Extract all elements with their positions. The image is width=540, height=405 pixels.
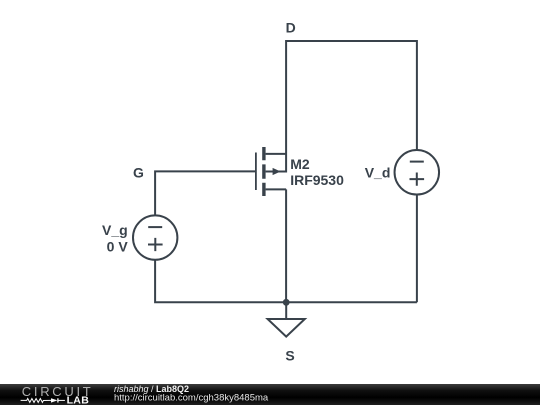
svg-text:M2: M2 xyxy=(290,156,310,172)
svg-text:V_g: V_g xyxy=(102,222,128,238)
svg-text:D: D xyxy=(286,19,296,35)
svg-text:S: S xyxy=(285,348,294,364)
svg-text:http://circuitlab.com/cgh38ky8: http://circuitlab.com/cgh38ky8485ma xyxy=(114,393,269,404)
svg-text:G: G xyxy=(133,164,144,180)
svg-text:0 V: 0 V xyxy=(107,238,129,254)
svg-text:LAB: LAB xyxy=(67,394,90,405)
svg-text:IRF9530: IRF9530 xyxy=(290,172,344,188)
svg-text:V_d: V_d xyxy=(365,165,391,181)
